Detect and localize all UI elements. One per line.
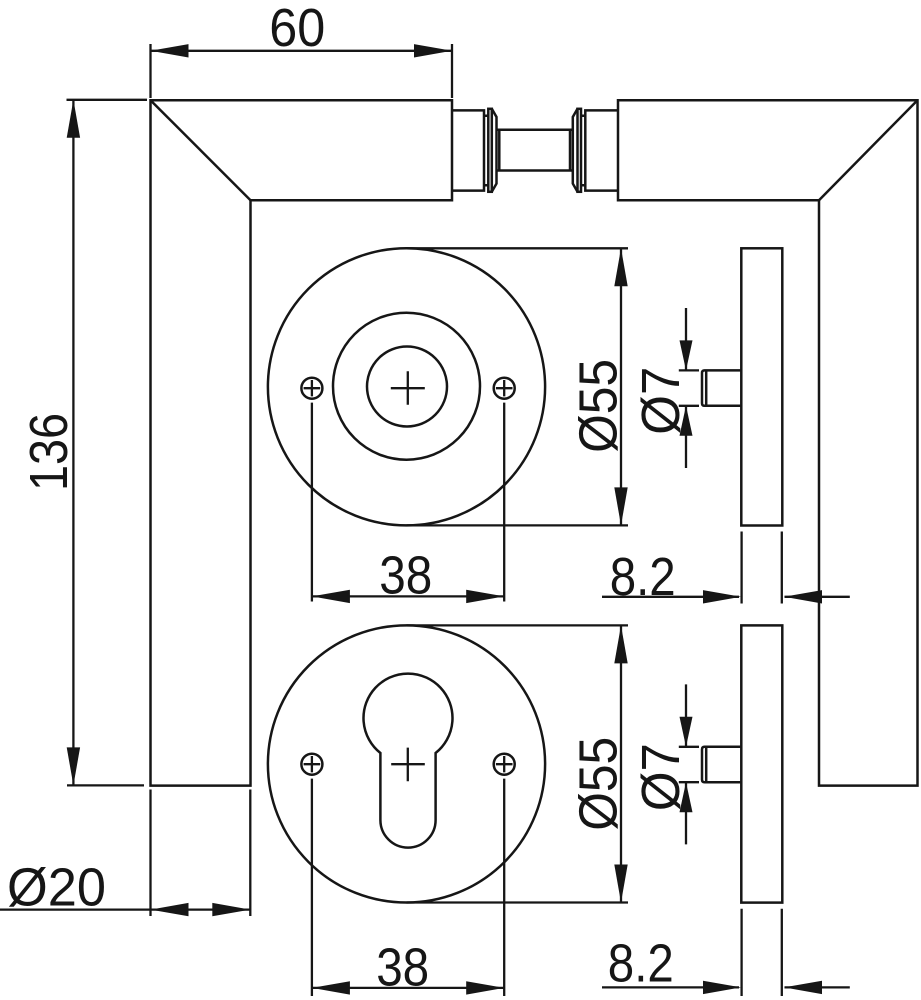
dimension O7 bottom: [631, 684, 699, 844]
svg-text:Ø20: Ø20: [7, 858, 106, 918]
bottom right screw: [494, 754, 515, 775]
svg-text:Ø55: Ø55: [569, 359, 629, 453]
top right screw: [494, 378, 515, 399]
dimension O20: [0, 790, 250, 918]
dimension 8.2 top: [602, 532, 850, 608]
dimension 60: [151, 0, 453, 98]
svg-text:Ø7: Ø7: [631, 367, 691, 435]
spindle: [497, 130, 573, 171]
dimension 8.2 bottom: [602, 909, 850, 996]
bottom rosette outer circle: [268, 625, 545, 902]
bottom side-view rosette: [741, 625, 782, 902]
dimension 136: [19, 100, 147, 786]
top rosette center cross: [391, 371, 425, 404]
svg-text:60: 60: [269, 0, 325, 58]
dimension O55 top: [407, 248, 629, 525]
left step lines: [484, 116, 488, 185]
bottom side-view spindle pin: [702, 747, 741, 782]
right handle miter line: [819, 100, 918, 200]
top rosette inner circle: [367, 347, 447, 427]
dimension O55 bottom: [407, 625, 629, 902]
keyhole center cross: [391, 748, 425, 782]
svg-text:8.2: 8.2: [608, 934, 674, 994]
keyhole euro profile: [364, 674, 453, 848]
svg-text:38: 38: [379, 545, 432, 605]
svg-text:Ø7: Ø7: [631, 743, 691, 811]
bottom left screw: [301, 754, 322, 775]
left handle miter line: [151, 100, 251, 200]
dimension O7 top: [631, 308, 699, 468]
right collar disk: [573, 109, 578, 192]
dimension 38 bottom: [312, 779, 504, 998]
left collar ring: [488, 109, 492, 192]
right collar ring: [578, 109, 582, 192]
left neck: [452, 110, 484, 190]
dimension 38 top: [312, 403, 504, 606]
top rosette outer circle: [268, 248, 545, 525]
svg-text:38: 38: [376, 938, 429, 998]
top side-view spindle pin: [702, 370, 741, 405]
top left screw: [301, 378, 322, 399]
left lever handle outline: [151, 100, 453, 785]
svg-text:136: 136: [19, 413, 79, 491]
left collar disk: [492, 109, 497, 192]
top rosette middle circle: [333, 313, 480, 460]
right neck: [585, 110, 617, 190]
top side-view rosette: [741, 248, 782, 525]
right lever handle outline: [618, 100, 918, 785]
right step lines: [581, 116, 585, 185]
svg-text:Ø55: Ø55: [569, 737, 629, 831]
svg-text:8.2: 8.2: [610, 547, 676, 607]
